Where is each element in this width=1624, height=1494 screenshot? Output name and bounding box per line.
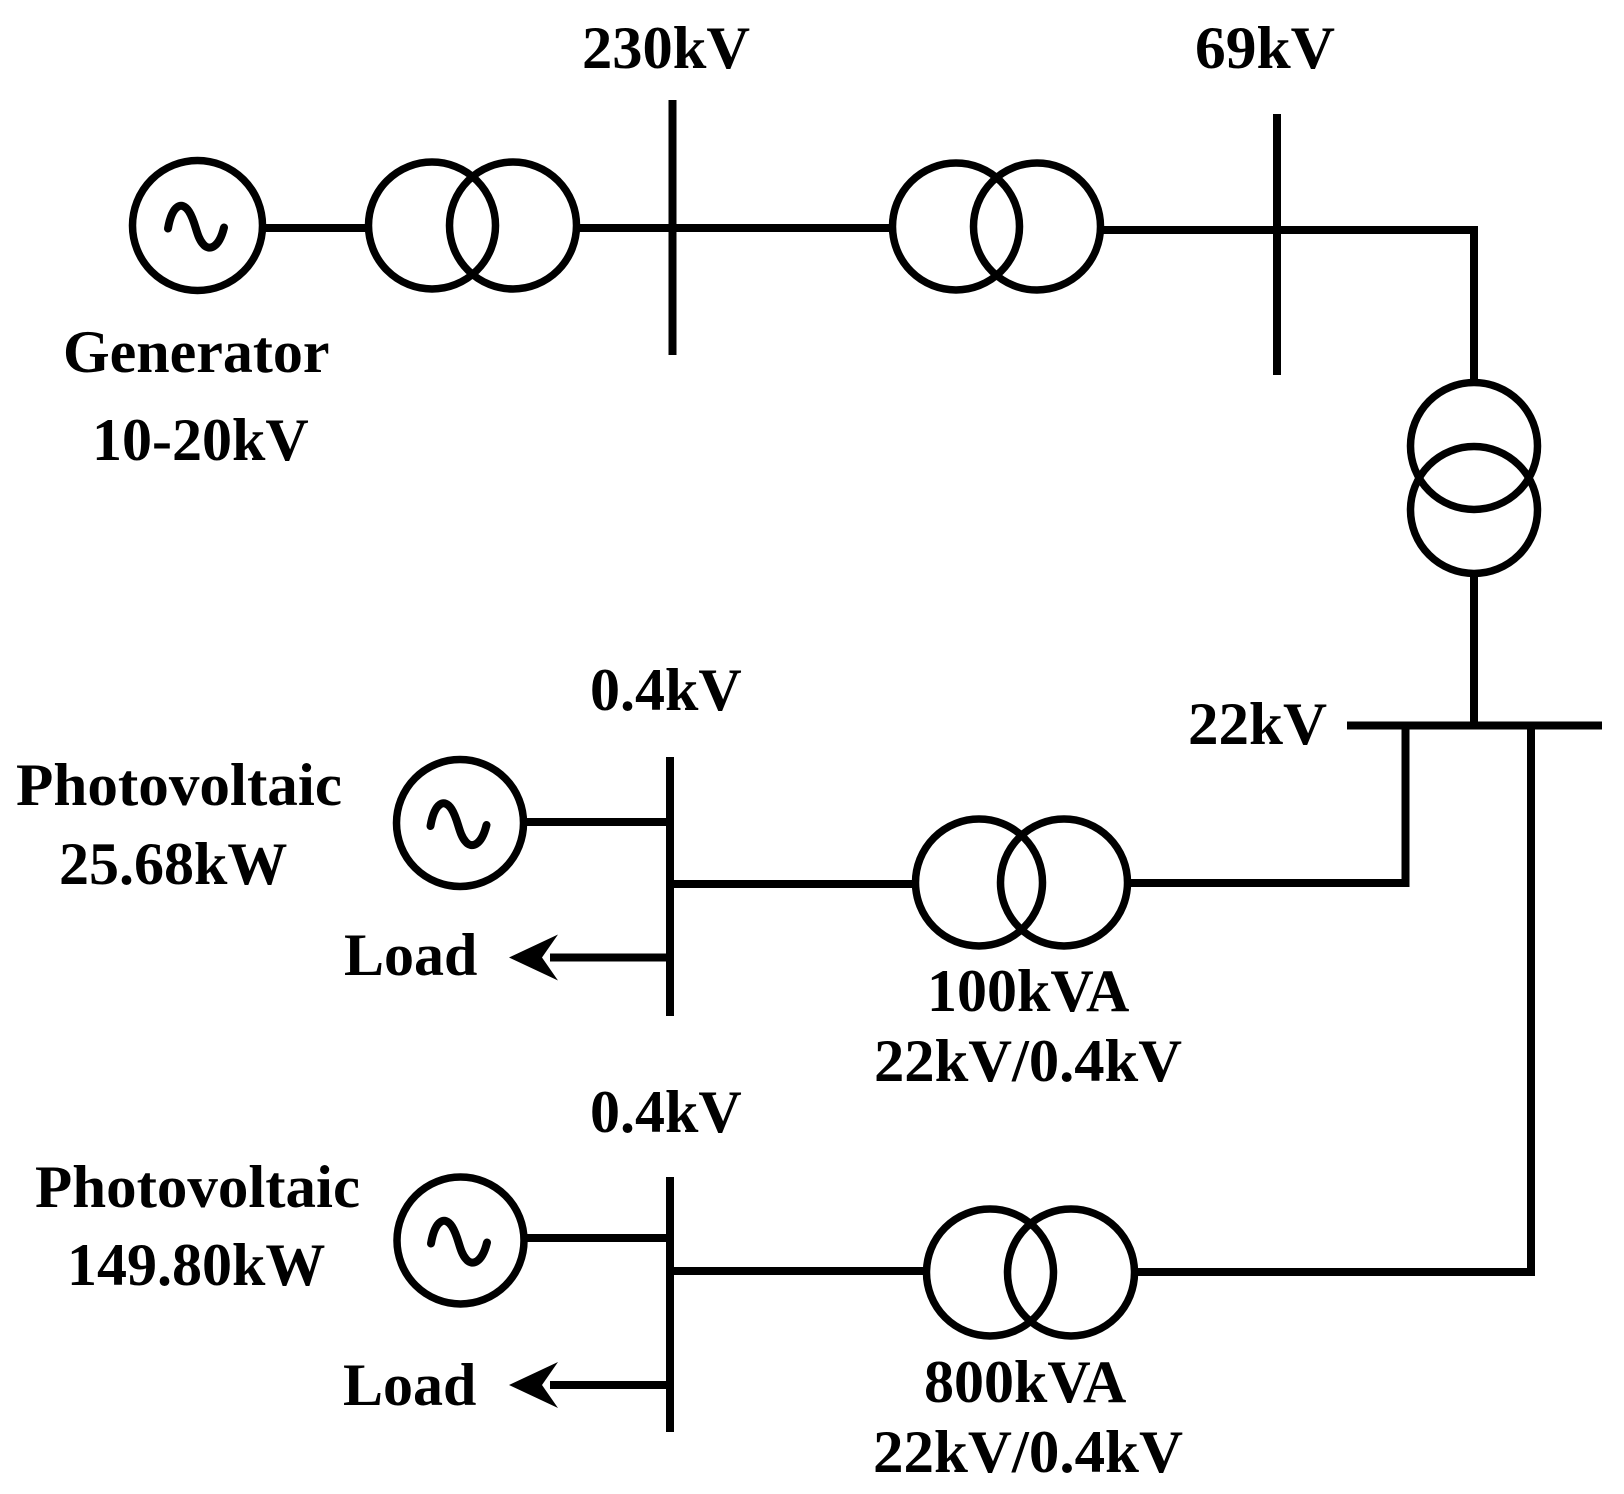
svg-text:Load: Load	[344, 922, 477, 988]
svg-text:Load: Load	[343, 1352, 476, 1418]
svg-text:Photovoltaic: Photovoltaic	[16, 752, 342, 818]
load arrow lower	[509, 1362, 670, 1408]
svg-text:Photovoltaic: Photovoltaic	[35, 1154, 360, 1220]
wire T1 to T2 through 230kV bus	[577, 224, 894, 232]
wire PV2 to 0.4kV bus	[525, 1234, 667, 1242]
photovoltaic source PV2	[397, 1177, 524, 1304]
photovoltaic source PV1	[397, 760, 524, 887]
wire T3 to 22kV bus	[1470, 574, 1478, 725]
svg-text:22kV: 22kV	[1188, 691, 1327, 757]
wire T2 to transformer T3 (corner)	[1101, 230, 1474, 383]
transformer T4 100kVA	[916, 819, 1128, 946]
svg-text:100kVA: 100kVA	[927, 958, 1129, 1024]
transformer T2	[893, 163, 1101, 290]
bus 0.4kV upper	[666, 757, 674, 1016]
svg-text:10-20kV: 10-20kV	[92, 407, 309, 473]
wire generator to transformer T1	[263, 224, 372, 232]
svg-text:22kV/0.4kV: 22kV/0.4kV	[874, 1028, 1182, 1094]
generator G1	[133, 161, 263, 291]
bus 230kV	[669, 100, 677, 355]
svg-text:25.68kW: 25.68kW	[59, 831, 287, 897]
wire 22kV bus down to 800kVA feeder	[1134, 725, 1531, 1272]
svg-text:22kV/0.4kV: 22kV/0.4kV	[873, 1419, 1183, 1485]
svg-text:149.80kW: 149.80kW	[67, 1232, 325, 1298]
wire PV1 to 0.4kV bus	[524, 818, 666, 826]
load arrow upper	[509, 935, 670, 981]
wire 0.4kV bus (lower) to T5	[670, 1267, 928, 1275]
bus 22kV	[1347, 722, 1602, 730]
bus 0.4kV lower	[666, 1177, 674, 1432]
svg-text:0.4kV: 0.4kV	[590, 1079, 742, 1145]
bus 69kV	[1273, 114, 1281, 375]
wire 22kV bus down to 100kVA feeder	[1126, 725, 1406, 883]
svg-text:Generator: Generator	[63, 319, 330, 385]
wire 0.4kV bus (upper) to T4	[670, 880, 918, 888]
svg-text:800kVA: 800kVA	[924, 1349, 1126, 1415]
svg-text:69kV: 69kV	[1195, 15, 1335, 81]
transformer T5 800kVA	[927, 1209, 1135, 1336]
svg-text:0.4kV: 0.4kV	[590, 657, 742, 723]
transformer T3	[1411, 383, 1538, 574]
svg-text:230kV: 230kV	[582, 15, 750, 81]
transformer T1	[369, 162, 577, 289]
